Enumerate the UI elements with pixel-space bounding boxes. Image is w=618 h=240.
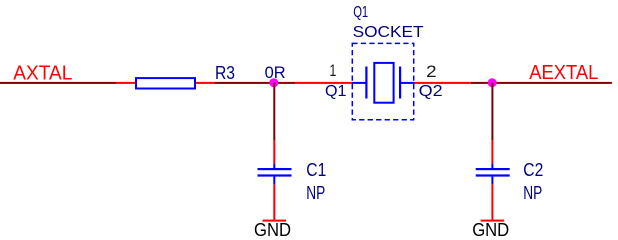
svg-text:AXTAL: AXTAL xyxy=(13,61,72,84)
junction node at R3 / C1 xyxy=(269,78,278,87)
wire segment C2 branch (vertical) xyxy=(491,83,493,141)
svg-text:C2: C2 xyxy=(523,160,543,180)
wire segment left (net AXTAL) xyxy=(0,82,116,84)
ground symbol GND (left) xyxy=(263,220,287,222)
svg-text:1: 1 xyxy=(329,61,336,80)
wire segment middle (R3 to node) xyxy=(215,82,295,84)
capacitor C2 pin 1 xyxy=(491,140,493,164)
svg-text:NP: NP xyxy=(523,183,542,203)
svg-text:Q1: Q1 xyxy=(325,83,347,100)
svg-text:SOCKET: SOCKET xyxy=(353,24,424,41)
svg-text:C1: C1 xyxy=(306,160,326,180)
svg-text:Q2: Q2 xyxy=(419,83,443,100)
crystal Q1 socket dashed outline xyxy=(352,43,413,119)
wire segment C1 branch (vertical) xyxy=(273,83,275,141)
ground symbol GND (right) xyxy=(481,220,505,222)
svg-text:AEXTAL: AEXTAL xyxy=(529,62,598,84)
resistor R3 pin 1 xyxy=(116,82,136,84)
capacitor C1 pin 2 xyxy=(273,184,275,219)
wire segment right (net AEXTAL) xyxy=(471,82,612,84)
capacitor C2 body xyxy=(476,164,510,185)
crystal Q1 symbol xyxy=(352,67,415,99)
capacitor C2 pin 2 xyxy=(491,184,493,219)
resistor R3 body xyxy=(136,78,195,88)
crystal Q1 pin 2 xyxy=(414,82,471,84)
svg-text:R3: R3 xyxy=(215,63,235,83)
capacitor C1 pin 1 xyxy=(273,140,275,164)
svg-text:NP: NP xyxy=(306,183,325,203)
junction node at C2 xyxy=(488,78,497,87)
crystal Q1 pin 1 xyxy=(295,82,352,84)
svg-text:Q1: Q1 xyxy=(353,4,368,21)
resistor R3 pin 2 xyxy=(196,82,215,84)
svg-text:GND: GND xyxy=(472,220,509,240)
svg-text:2: 2 xyxy=(426,62,437,81)
svg-text:GND: GND xyxy=(254,220,291,240)
capacitor C1 body xyxy=(258,164,292,185)
